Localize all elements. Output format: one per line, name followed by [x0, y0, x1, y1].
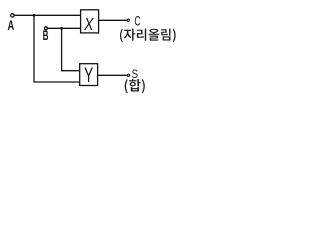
svg-text:B: B	[43, 29, 49, 44]
wire X output	[99, 19, 128, 21]
wire B branch down	[61, 28, 63, 70]
svg-text:Y: Y	[84, 63, 93, 87]
input terminal B	[44, 27, 47, 30]
output terminal C	[127, 19, 129, 21]
svg-text:A: A	[8, 17, 15, 33]
label sum (합)	[125, 79, 145, 93]
output terminal S	[128, 74, 130, 76]
node B junction	[60, 27, 63, 30]
wire B to X	[48, 27, 81, 29]
wire A branch down	[33, 15, 35, 82]
wire B branch to Y	[61, 70, 80, 72]
wire Y output	[98, 74, 128, 76]
wire A branch to Y	[33, 81, 80, 83]
block Y	[80, 64, 98, 86]
label carry (자리올림)	[120, 29, 176, 43]
block X	[81, 10, 99, 33]
input terminal A	[11, 14, 14, 17]
svg-text:X: X	[83, 15, 94, 34]
wire A to X	[14, 14, 80, 16]
node A junction	[33, 14, 36, 17]
svg-text:C: C	[134, 15, 140, 29]
